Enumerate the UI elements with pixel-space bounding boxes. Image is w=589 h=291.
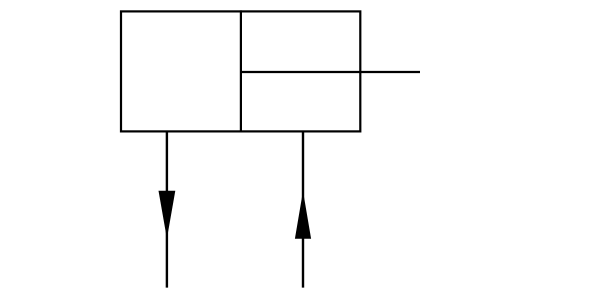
port line (horizontal)	[241, 71, 420, 73]
arrow up (right flow)	[295, 191, 311, 239]
wire right	[302, 131, 304, 288]
compartment divider	[240, 10, 242, 132]
component body outline	[121, 11, 360, 131]
wire left	[166, 131, 168, 288]
arrow down (left flow)	[159, 191, 176, 239]
